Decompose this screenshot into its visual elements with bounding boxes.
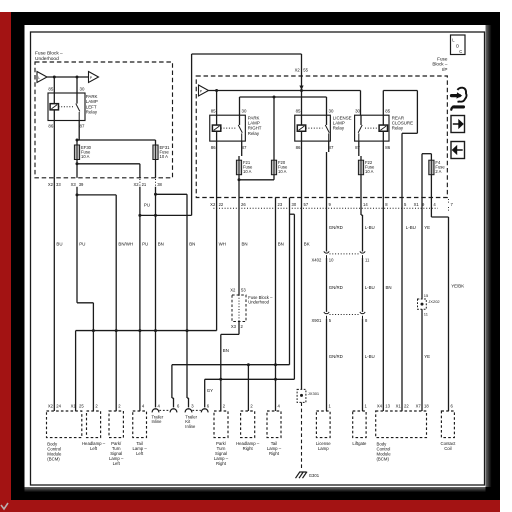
svg-text:30: 30	[242, 109, 247, 114]
svg-text:X2: X2	[133, 182, 139, 187]
svg-text:10: 10	[329, 257, 334, 262]
svg-text:30: 30	[329, 109, 334, 114]
svg-text:(BCM): (BCM)	[47, 456, 60, 461]
svg-text:39: 39	[79, 182, 84, 187]
svg-text:18: 18	[424, 404, 429, 409]
svg-text:Coil: Coil	[444, 446, 451, 451]
svg-text:85: 85	[385, 109, 390, 114]
svg-text:X2: X2	[48, 404, 54, 409]
svg-text:L-BU: L-BU	[365, 225, 375, 230]
svg-text:22: 22	[219, 202, 224, 207]
svg-text:Right: Right	[269, 451, 280, 456]
svg-text:GY: GY	[207, 388, 213, 393]
svg-text:BN: BN	[158, 242, 164, 247]
svg-text:G301: G301	[309, 473, 320, 478]
svg-text:X2: X2	[48, 182, 54, 187]
svg-text:30: 30	[292, 202, 297, 207]
svg-text:X402: X402	[312, 257, 322, 262]
svg-text:Lamp: Lamp	[318, 446, 329, 451]
svg-text:GN/RD: GN/RD	[329, 285, 343, 290]
svg-text:24: 24	[56, 404, 61, 409]
svg-text:30: 30	[355, 109, 360, 114]
svg-text:10 A: 10 A	[365, 169, 374, 174]
svg-text:55: 55	[303, 68, 308, 73]
svg-text:PU: PU	[79, 242, 85, 247]
svg-text:38: 38	[157, 182, 162, 187]
svg-text:BN: BN	[278, 242, 284, 247]
svg-text:L-BU: L-BU	[365, 354, 375, 359]
svg-text:33: 33	[56, 182, 61, 187]
svg-text:Right: Right	[243, 446, 254, 451]
svg-text:10 A: 10 A	[278, 169, 287, 174]
svg-text:BN/WH: BN/WH	[118, 242, 133, 247]
svg-text:X1: X1	[396, 404, 402, 409]
svg-text:Relay: Relay	[392, 126, 404, 131]
svg-text:C: C	[459, 49, 462, 54]
svg-text:30: 30	[80, 87, 85, 92]
svg-text:Relay: Relay	[333, 126, 345, 131]
svg-text:10 A: 10 A	[160, 154, 169, 159]
svg-text:BN: BN	[223, 348, 229, 353]
svg-text:(BCM): (BCM)	[377, 456, 390, 461]
svg-text:X4: X4	[377, 404, 383, 409]
svg-text:15: 15	[424, 293, 429, 298]
svg-text:87: 87	[80, 124, 85, 129]
svg-text:Underhood: Underhood	[248, 300, 269, 305]
svg-text:L-BU: L-BU	[365, 285, 375, 290]
svg-text:Inline: Inline	[185, 424, 196, 429]
svg-text:22: 22	[404, 404, 409, 409]
svg-text:X7: X7	[416, 404, 422, 409]
svg-text:PU: PU	[144, 203, 150, 208]
svg-text:57: 57	[304, 202, 309, 207]
svg-text:Relay: Relay	[248, 131, 260, 136]
svg-text:X3: X3	[71, 182, 77, 187]
svg-text:21: 21	[142, 182, 147, 187]
svg-text:26: 26	[241, 202, 246, 207]
svg-text:85: 85	[211, 109, 216, 114]
svg-text:X901: X901	[312, 318, 322, 323]
svg-text:X2: X2	[295, 68, 301, 73]
svg-text:X1: X1	[414, 202, 420, 207]
svg-text:X1: X1	[71, 404, 77, 409]
svg-text:YE/BK: YE/BK	[451, 284, 464, 289]
svg-text:Left: Left	[90, 446, 98, 451]
svg-text:85: 85	[48, 87, 53, 92]
svg-text:86: 86	[385, 145, 390, 150]
svg-text:2 A: 2 A	[435, 169, 441, 174]
svg-text:BN: BN	[386, 285, 392, 290]
svg-text:JX202: JX202	[428, 299, 440, 304]
svg-text:Inline: Inline	[152, 419, 163, 424]
svg-text:I/P: I/P	[442, 67, 448, 72]
svg-text:11: 11	[365, 257, 370, 262]
svg-text:Fuse Block –: Fuse Block –	[35, 51, 63, 57]
svg-text:25: 25	[79, 404, 84, 409]
svg-text:WH: WH	[219, 242, 226, 247]
svg-text:L-BU: L-BU	[406, 225, 416, 230]
svg-text:X3: X3	[231, 324, 237, 329]
svg-text:Liftgate: Liftgate	[352, 441, 367, 446]
svg-text:BK: BK	[304, 242, 310, 247]
svg-text:53: 53	[241, 288, 246, 293]
svg-text:X2: X2	[210, 202, 216, 207]
svg-text:13: 13	[385, 404, 390, 409]
svg-text:JX301: JX301	[308, 391, 320, 396]
svg-text:L: L	[38, 76, 40, 80]
svg-text:10 A: 10 A	[81, 154, 90, 159]
svg-text:86: 86	[296, 145, 301, 150]
svg-text:87: 87	[355, 145, 360, 150]
svg-text:14: 14	[363, 202, 368, 207]
svg-text:Left: Left	[113, 461, 121, 466]
svg-text:BN: BN	[242, 242, 248, 247]
svg-text:BU: BU	[56, 242, 62, 247]
svg-text:YE: YE	[424, 225, 430, 230]
svg-text:86: 86	[211, 145, 216, 150]
svg-text:GN/RD: GN/RD	[329, 354, 343, 359]
svg-text:YE: YE	[424, 354, 430, 359]
svg-text:GN/RD: GN/RD	[329, 225, 343, 230]
svg-text:Left: Left	[136, 451, 144, 456]
svg-text:85: 85	[296, 109, 301, 114]
svg-text:BN: BN	[189, 242, 195, 247]
svg-text:Underhood: Underhood	[35, 56, 59, 62]
svg-text:PU: PU	[142, 242, 148, 247]
svg-text:86: 86	[48, 124, 53, 129]
svg-text:Relay: Relay	[86, 110, 98, 115]
svg-text:X2: X2	[230, 288, 236, 293]
svg-text:Right: Right	[216, 461, 227, 466]
svg-text:10 A: 10 A	[243, 169, 252, 174]
svg-text:23: 23	[278, 202, 283, 207]
